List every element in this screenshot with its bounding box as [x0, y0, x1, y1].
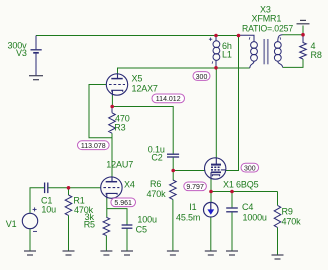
resistor R1 — [65, 195, 72, 215]
svg-text:470k: 470k — [282, 217, 302, 227]
svg-text:114.012: 114.012 — [156, 96, 181, 103]
svg-text:C5: C5 — [136, 225, 147, 235]
L1 polarity + mark — [209, 38, 213, 64]
wire C2 bottom to grid node — [172, 158, 174, 171]
node voltage oval 5.961 — [111, 198, 136, 207]
svg-text:300: 300 — [244, 165, 256, 172]
svg-text:12AX7: 12AX7 — [132, 83, 158, 93]
svg-text:113.078: 113.078 — [81, 143, 106, 150]
svg-text:X4: X4 — [124, 180, 135, 190]
capacitor C5 — [122, 225, 133, 228]
wire R8 ground stub — [302, 26, 304, 35]
wire R1 bottom to ground — [68, 215, 70, 251]
tube X4 12AU7 — [101, 177, 122, 198]
svg-text:XFMR1: XFMR1 — [252, 14, 282, 24]
svg-text:300: 300 — [196, 74, 208, 81]
svg-text:100u: 100u — [137, 215, 157, 225]
wire C4 bottom to ground — [231, 212, 233, 251]
svg-text:R9: R9 — [282, 207, 293, 217]
svg-text:R3: R3 — [114, 123, 125, 133]
capacitor C1 — [45, 183, 48, 194]
transformer X3 secondary polarity tick — [279, 37, 282, 39]
wire X1 grid — [173, 170, 205, 172]
wire cathode rail — [211, 191, 278, 193]
I1 arrow — [207, 209, 214, 214]
wire C1 to X4 grid — [48, 187, 101, 189]
svg-text:R6: R6 — [150, 179, 161, 189]
wire R3 bottom to X4 plate — [111, 133, 113, 177]
grounds bottom row — [24, 251, 284, 259]
node voltage oval 114.012 — [152, 94, 185, 103]
wire C5 bottom to ground — [126, 229, 128, 251]
node voltage oval 300 right — [241, 163, 259, 172]
wire R1 top lead — [68, 188, 70, 195]
wire X4 cathode to R5 — [106, 198, 108, 218]
current source I1 — [204, 202, 219, 217]
wire X5 grid to lower node — [89, 85, 112, 138]
inductor L1 — [213, 36, 220, 68]
wire secondary top to R8 node — [283, 34, 304, 36]
wire R9 top lead — [277, 192, 279, 206]
wire R5 bottom to ground — [105, 236, 107, 251]
wire X1 cathode down to rail and I1 — [210, 176, 212, 203]
resistor R5 — [103, 217, 110, 235]
svg-text:1000u: 1000u — [243, 212, 267, 222]
transformer X3 secondary — [274, 35, 282, 68]
wire C4 top lead — [231, 192, 233, 208]
ground above R8 (inverted) — [297, 20, 310, 23]
wire plate rail y=68 — [118, 68, 250, 74]
resistor R6 — [170, 180, 177, 199]
svg-text:R5: R5 — [84, 220, 95, 230]
svg-text:R1: R1 — [73, 195, 84, 205]
svg-text:C2: C2 — [151, 153, 162, 163]
svg-text:470k: 470k — [147, 189, 167, 199]
svg-text:12AU7: 12AU7 — [106, 159, 133, 169]
wire R6 bottom to ground — [172, 199, 174, 251]
svg-text:X1 6BQ5: X1 6BQ5 — [223, 179, 259, 189]
node voltage oval 9.797 — [184, 182, 207, 191]
capacitor C2 — [167, 154, 179, 157]
transformer X3 core — [264, 39, 268, 64]
wire secondary bottom to R8 bottom — [283, 59, 303, 67]
wire R6 top lead — [172, 171, 174, 181]
ground under V3 — [29, 76, 43, 80]
V1 plus mark — [33, 207, 37, 231]
capacitor C4 — [226, 208, 238, 212]
wire V1 bottom to ground — [29, 229, 31, 251]
tube X5 12AX7 — [106, 74, 127, 95]
wire cathode branch to C5 — [107, 209, 127, 225]
node voltage oval 300 left — [193, 72, 210, 81]
transformer X3 primary — [239, 35, 258, 68]
resistor R9 — [274, 205, 281, 227]
transformer X3 primary polarity tick — [248, 37, 251, 39]
node voltage oval 113.078 — [78, 141, 110, 150]
wire X5 cathode to R3 top junction — [111, 95, 113, 107]
wire R9 bottom to ground — [277, 227, 279, 255]
svg-text:9.797: 9.797 — [186, 184, 204, 191]
svg-text:C4: C4 — [242, 202, 253, 212]
svg-text:45.5m: 45.5m — [176, 212, 200, 222]
resistor R3 — [109, 113, 116, 133]
wire node to C2 — [112, 107, 173, 154]
wire X1 plate vertical — [215, 68, 217, 158]
source V1 — [22, 213, 37, 228]
svg-text:10u: 10u — [41, 205, 56, 215]
svg-text:L1: L1 — [222, 50, 232, 60]
wire screen grid from rail down to X1 g2 — [226, 36, 239, 171]
tube X1 6BQ5 pentode — [205, 158, 226, 179]
svg-text:V1: V1 — [6, 219, 17, 229]
wire I1 bottom to ground — [210, 217, 212, 251]
svg-text:5.961: 5.961 — [114, 200, 132, 207]
wire V1 to C1 — [30, 188, 44, 214]
svg-text:V3: V3 — [16, 48, 27, 58]
svg-text:RATIO=.0257: RATIO=.0257 — [242, 23, 293, 33]
svg-text:X5: X5 — [132, 73, 143, 83]
wire top B+ rail — [36, 35, 239, 37]
svg-text:R8: R8 — [311, 50, 322, 60]
resistor R8 — [300, 35, 307, 59]
battery V3 — [31, 36, 42, 76]
svg-text:I1: I1 — [189, 202, 196, 212]
